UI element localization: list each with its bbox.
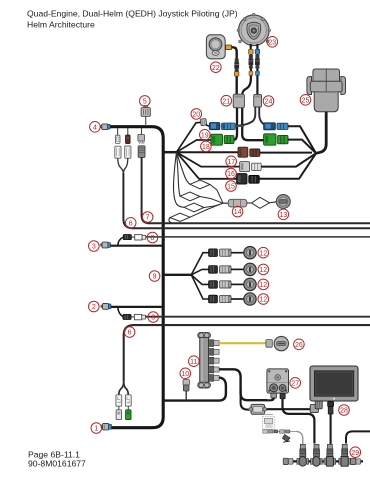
wire 7 to horizontal run bbox=[142, 157, 150, 223]
Y-adapter 24 bbox=[254, 94, 262, 107]
black connector on fuse branch bbox=[123, 235, 131, 240]
connector 4 bbox=[100, 124, 110, 130]
callout 10 bbox=[180, 368, 191, 379]
svg-text:1: 1 bbox=[94, 426, 98, 433]
engine row 3 bbox=[209, 278, 257, 290]
inline connectors on helm cables bbox=[249, 55, 260, 75]
svg-text:6: 6 bbox=[128, 330, 132, 337]
wire terminal 4 to module 27 port bbox=[219, 369, 267, 400]
svg-text:11: 11 bbox=[190, 359, 197, 366]
svg-text:20: 20 bbox=[192, 112, 200, 119]
wire adapter 24 right output to right blue pair bbox=[259, 107, 265, 126]
white holder connector on drop 2 bbox=[125, 146, 131, 158]
round connector 13 bbox=[276, 195, 290, 209]
svg-text:8: 8 bbox=[151, 315, 155, 322]
blue band on helm right cable bbox=[255, 49, 260, 54]
black connector pair (15) bbox=[237, 174, 260, 184]
CAN tee 3 bbox=[324, 444, 336, 466]
callout 9 bbox=[149, 271, 160, 282]
callout 19 bbox=[200, 130, 211, 141]
ribbed connector on drop 3 bbox=[138, 146, 145, 158]
callout 12 row3 bbox=[258, 279, 269, 290]
wire connector 3 to trunk bbox=[111, 245, 164, 247]
round plug 26 bbox=[266, 336, 289, 350]
wire green pair right to convergence bbox=[288, 140, 316, 154]
callout 13 bbox=[278, 209, 289, 220]
coil wire A from junction bbox=[177, 152, 224, 203]
inline connector on joystick cable bbox=[234, 59, 239, 72]
cable module 27 right port to backbone tee bbox=[280, 393, 314, 443]
backbone end connectors left bbox=[283, 458, 293, 464]
coil wire B from junction bbox=[177, 152, 224, 203]
helm 2 link line bbox=[346, 431, 370, 443]
orange band on joystick cable bbox=[235, 72, 239, 77]
svg-text:12: 12 bbox=[259, 297, 267, 304]
callout 12 row2 bbox=[258, 264, 269, 275]
callout 18 bbox=[201, 141, 212, 152]
callout 1 bbox=[91, 423, 102, 434]
callout 23 bbox=[267, 37, 278, 48]
electronic helm 23 bbox=[237, 13, 271, 45]
display 28 power cable bbox=[328, 402, 334, 444]
callout 12 row4 bbox=[258, 294, 269, 305]
grey pin connector on drop 3 bbox=[138, 134, 145, 143]
svg-text:2: 2 bbox=[92, 304, 96, 311]
svg-text:12: 12 bbox=[259, 250, 267, 257]
harness drop wire 1 bbox=[117, 128, 119, 135]
power filter mini harness bbox=[262, 415, 296, 434]
data bus line (7) across page bbox=[148, 222, 370, 224]
svg-text:27: 27 bbox=[291, 380, 299, 387]
svg-text:23: 23 bbox=[268, 39, 276, 46]
svg-text:19: 19 bbox=[201, 132, 209, 139]
connector 5 bbox=[141, 106, 150, 127]
yellow memory wire to plug 26 bbox=[219, 342, 266, 344]
callout 24 bbox=[263, 96, 274, 107]
wire junction to green pair left bbox=[177, 140, 212, 152]
wire brown pair to convergence bbox=[260, 152, 312, 154]
callout 28 bbox=[339, 405, 350, 416]
connector 1 bbox=[101, 424, 112, 430]
green connector pair left (18) bbox=[211, 134, 234, 145]
fused branch from connector 2 wire bbox=[118, 307, 123, 317]
callout 7 bbox=[142, 212, 153, 223]
blue connector pair left (19) bbox=[209, 123, 235, 130]
harness drop wire 3 bbox=[141, 128, 143, 135]
svg-text:16: 16 bbox=[227, 171, 235, 178]
wire 9 from trunk to fan-out bbox=[164, 274, 191, 276]
accessory end connector green bbox=[126, 406, 131, 419]
svg-text:25: 25 bbox=[302, 97, 310, 104]
svg-text:8: 8 bbox=[151, 235, 155, 242]
wire junction to connector 20 bbox=[177, 122, 201, 152]
backbone terminator right bbox=[350, 458, 360, 464]
wire junction to grey pair (16) bbox=[177, 152, 240, 166]
Y merge wire of drops 1-2 bbox=[118, 158, 128, 174]
data connector (D-sub) bbox=[249, 404, 267, 414]
CAN tee 1 bbox=[297, 444, 309, 466]
callout 8 upper bbox=[147, 232, 158, 243]
inline connector 14 bbox=[223, 199, 247, 207]
callout 11 bbox=[189, 356, 200, 367]
title text bbox=[27, 9, 238, 30]
fused power line to right (lower) bbox=[145, 316, 370, 318]
svg-text:4: 4 bbox=[93, 124, 97, 131]
grey connector pair (16) bbox=[240, 162, 262, 172]
accessory holder connector left bbox=[116, 395, 122, 406]
fused power line to right (upper) bbox=[146, 236, 370, 238]
steering actuator 25 bbox=[307, 69, 346, 112]
wire connector 2 to trunk bbox=[111, 306, 163, 308]
callout 21 bbox=[221, 95, 232, 106]
wire connector 20 to blue pair bbox=[206, 125, 210, 127]
power wire to tee 1 bbox=[296, 431, 303, 444]
coil wire C from junction bbox=[173, 152, 223, 212]
svg-text:9: 9 bbox=[153, 274, 157, 281]
coil wire after 14 bbox=[247, 197, 277, 208]
svg-text:6: 6 bbox=[129, 220, 133, 227]
blue connector pair right bbox=[264, 123, 288, 130]
accessory holder connector right bbox=[125, 395, 131, 406]
black connector on fuse branch 2 bbox=[123, 314, 131, 319]
callout 6 lower bbox=[124, 327, 135, 338]
svg-text:10: 10 bbox=[181, 371, 189, 378]
callout 4 bbox=[90, 122, 101, 133]
module 27 bbox=[267, 369, 289, 393]
fuse holder 8 (lower) bbox=[131, 314, 145, 319]
callout 12 row1 bbox=[258, 247, 269, 258]
connector 20 bbox=[200, 118, 207, 125]
engine row 4 bbox=[209, 293, 257, 305]
CAN tee 2 bbox=[311, 444, 323, 466]
wires from helm 23 down bbox=[242, 44, 257, 95]
cable data connector to display elbow bbox=[267, 408, 310, 410]
accessory line across page bbox=[124, 325, 370, 381]
display 28 bbox=[310, 366, 358, 401]
engine row 1: connector, inline plug, terminator 12 bbox=[209, 247, 257, 259]
wire 6 to horizontal run bbox=[123, 173, 133, 228]
connector 10 bbox=[183, 380, 189, 401]
svg-text:3: 3 bbox=[92, 244, 96, 251]
callout 14 bbox=[232, 206, 243, 217]
page number text bbox=[28, 450, 86, 469]
display elbow connector bbox=[310, 400, 322, 412]
callout 2 bbox=[89, 301, 100, 312]
white holder connector on drop 1 bbox=[115, 146, 121, 158]
callout 15 bbox=[226, 181, 237, 192]
wire blue pair right to convergence bbox=[288, 126, 316, 153]
svg-text:17: 17 bbox=[227, 159, 235, 166]
CAN tee 4 bbox=[339, 444, 351, 466]
svg-text:26: 26 bbox=[295, 342, 303, 349]
wire grey pair to convergence bbox=[261, 153, 316, 166]
callout 25 bbox=[300, 95, 311, 106]
cable from actuator 25 to junction bbox=[316, 112, 326, 154]
wire junction to brown pair (17) bbox=[177, 151, 239, 153]
dark red connector on drop 2 bbox=[126, 135, 131, 144]
coil wire D from bus line 7 bbox=[169, 203, 223, 223]
svg-text:15: 15 bbox=[227, 184, 235, 191]
elbow connector under module 27 left port bbox=[266, 393, 277, 400]
svg-text:14: 14 bbox=[234, 209, 242, 216]
svg-text:13: 13 bbox=[280, 212, 288, 219]
callout 27 bbox=[290, 378, 301, 389]
wire adapter 21 left output to green connector pair bbox=[234, 108, 238, 140]
wire adapter 21 right output to right green pair bbox=[242, 108, 264, 140]
svg-text:Helm Architecture: Helm Architecture bbox=[27, 20, 95, 30]
connector (orange) on joystick 22 bbox=[226, 45, 232, 50]
joystick 22 bbox=[206, 35, 225, 59]
callout 5 bbox=[140, 96, 151, 107]
svg-text:5: 5 bbox=[143, 99, 147, 106]
callout 26 bbox=[294, 339, 305, 350]
svg-text:24: 24 bbox=[265, 99, 273, 106]
svg-text:12: 12 bbox=[259, 267, 267, 274]
svg-text:21: 21 bbox=[222, 98, 230, 105]
small white connector on drop 1 bbox=[115, 135, 120, 143]
data bus line (6) across page bbox=[132, 227, 370, 229]
callout 29 bbox=[350, 447, 361, 458]
bottom accessory harness Y-split bbox=[119, 381, 129, 395]
CAN backbone 29 bbox=[283, 460, 363, 462]
callout 16 bbox=[226, 168, 237, 179]
wire black pair to convergence bbox=[259, 153, 316, 179]
brown connector pair (17) bbox=[238, 147, 260, 157]
Y-adapter 21 bbox=[233, 94, 244, 108]
callout 20 bbox=[191, 109, 202, 120]
svg-text:29: 29 bbox=[351, 450, 359, 457]
fuse holder 8 (upper) bbox=[131, 235, 145, 240]
callout 3 bbox=[89, 241, 100, 252]
connector 2 bbox=[101, 304, 111, 310]
svg-text:7: 7 bbox=[146, 215, 150, 222]
callout 17 bbox=[226, 156, 237, 167]
callout 6 upper bbox=[125, 218, 136, 229]
callout 22 bbox=[211, 62, 222, 73]
accessory end connector white bbox=[116, 406, 121, 419]
harness junction node bbox=[163, 151, 176, 154]
engine row 2 bbox=[209, 263, 257, 275]
ground lug mini bbox=[282, 435, 290, 443]
svg-text:28: 28 bbox=[340, 408, 348, 415]
wire terminal 5 to trunk bbox=[163, 378, 226, 401]
fan-out wires to engine connectors bbox=[191, 253, 208, 299]
orange band on helm left cable bbox=[249, 49, 254, 54]
terminal block plugs bbox=[209, 340, 220, 381]
callout 8 lower bbox=[148, 312, 159, 323]
terminal block 11 bbox=[198, 332, 211, 388]
wire from joystick 22 to adapter 21 bbox=[232, 47, 237, 94]
wire 24-left crossing to blue pair (grey link) bbox=[235, 125, 244, 127]
svg-text:Quad-Engine, Dual-Helm (QEDH): Quad-Engine, Dual-Helm (QEDH) Joystick P… bbox=[27, 9, 238, 19]
connector 3 bbox=[100, 242, 110, 248]
svg-text:18: 18 bbox=[202, 144, 210, 151]
main helm harness trunk bbox=[110, 127, 163, 428]
svg-text:22: 22 bbox=[212, 65, 220, 72]
svg-text:90-8M0161677: 90-8M0161677 bbox=[28, 459, 86, 469]
harness drop wire 2 bbox=[127, 128, 129, 135]
fused branch from connector 3 wire bbox=[118, 237, 123, 246]
wire branch to data connector bbox=[241, 390, 250, 410]
wire junction to black pair (15) bbox=[177, 152, 237, 179]
wire adapter 24 left output to left blue pair bbox=[236, 107, 256, 126]
green connector pair right bbox=[264, 134, 288, 145]
svg-text:12: 12 bbox=[259, 282, 267, 289]
